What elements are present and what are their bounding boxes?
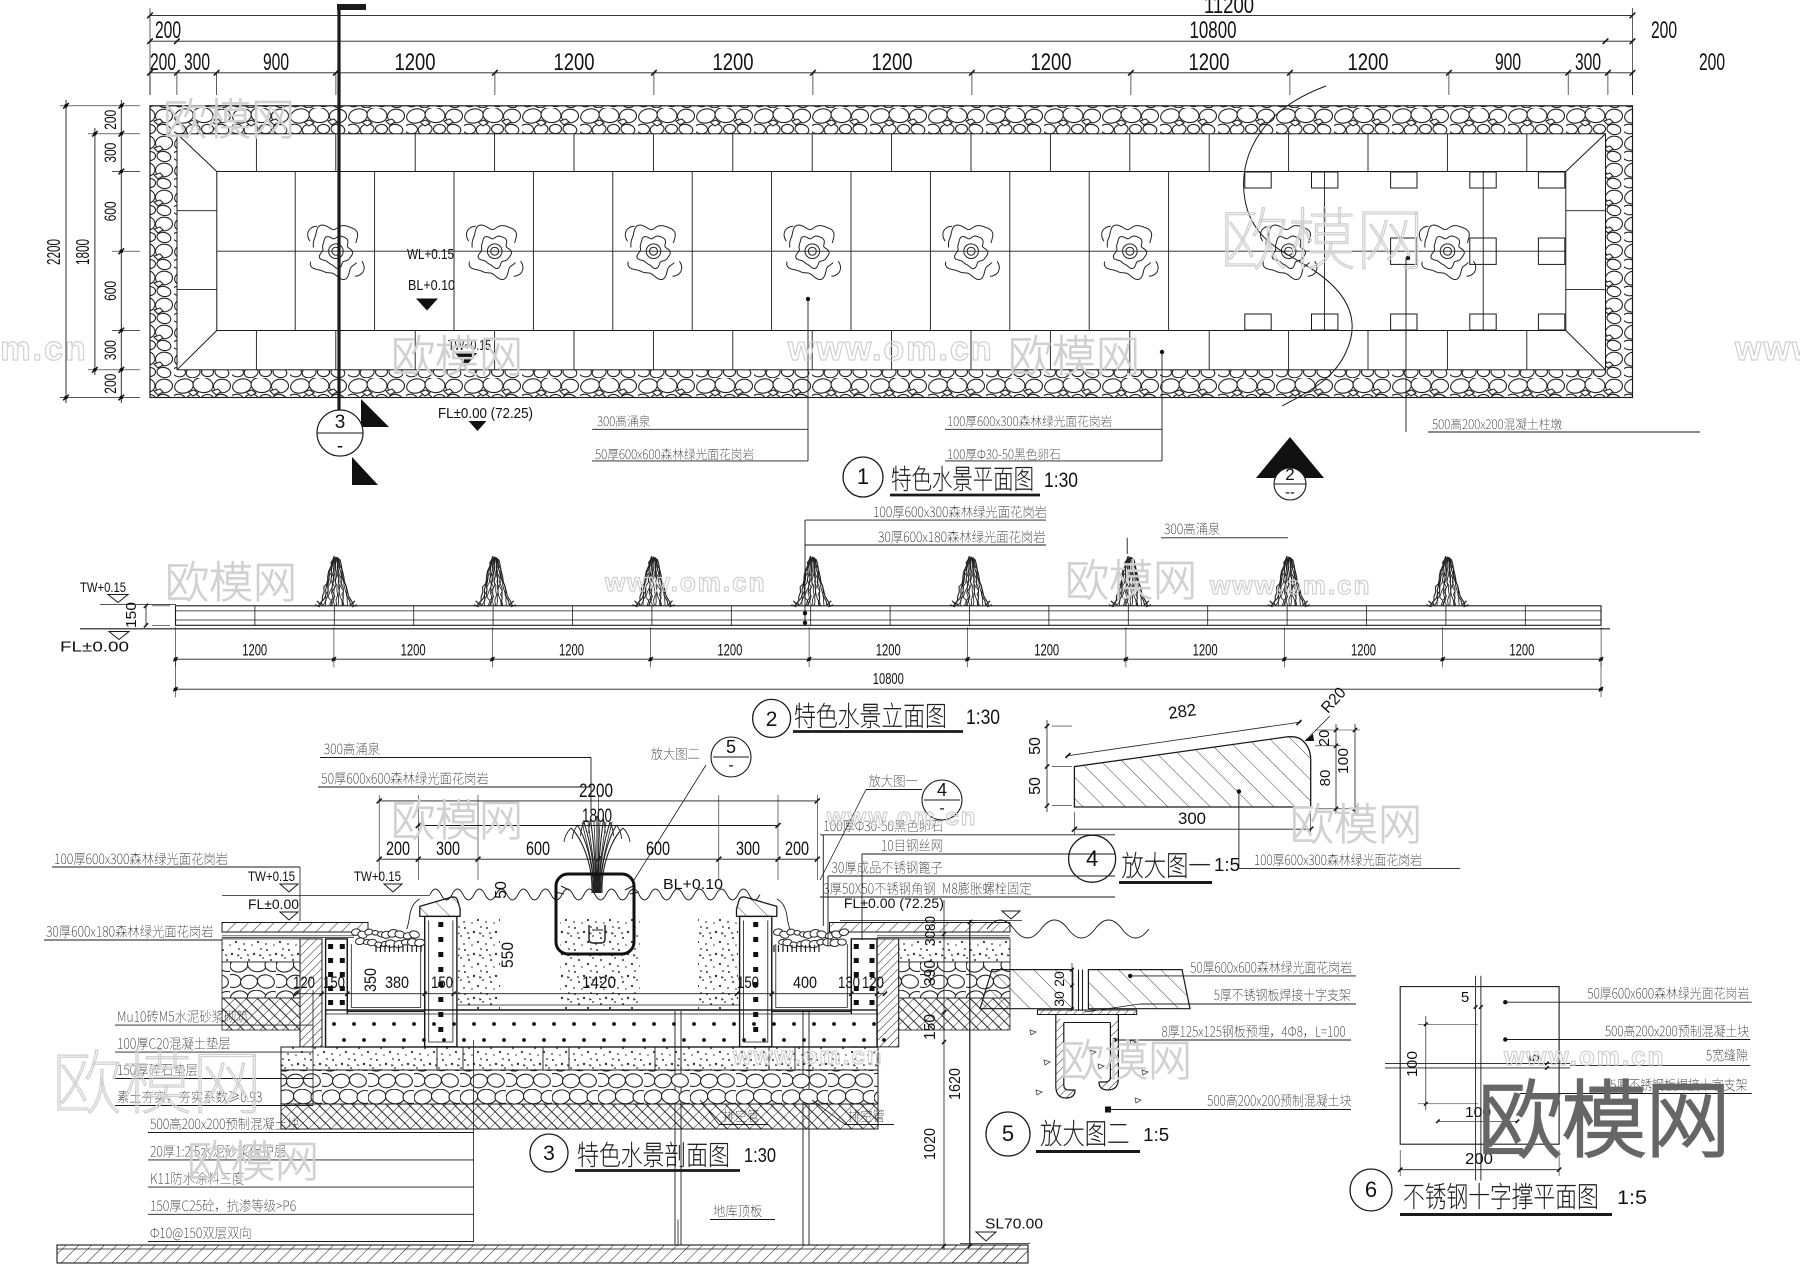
svg-text:5: 5 (1002, 1121, 1014, 1146)
svg-text:150: 150 (431, 973, 453, 992)
svg-text:FL±0.00: FL±0.00 (248, 896, 299, 912)
svg-text:6: 6 (1365, 1177, 1377, 1202)
svg-text:130: 130 (838, 973, 860, 992)
svg-text:150: 150 (737, 973, 759, 992)
svg-text:1:30: 1:30 (966, 706, 1000, 729)
svg-text:10800: 10800 (1190, 17, 1237, 44)
svg-text:400: 400 (793, 973, 817, 992)
svg-text:282: 282 (1167, 700, 1197, 723)
svg-text:www.om.cn: www.om.cn (1503, 1041, 1666, 1071)
svg-text:1200: 1200 (1189, 49, 1230, 76)
svg-text:120: 120 (293, 973, 315, 992)
svg-text:1200: 1200 (876, 641, 901, 660)
svg-text:3: 3 (543, 1142, 555, 1165)
svg-text:www.om.cn: www.om.cn (1734, 330, 1800, 368)
svg-text:200: 200 (1651, 17, 1677, 44)
svg-text:5: 5 (726, 737, 736, 757)
svg-text:50: 50 (493, 881, 510, 899)
svg-text:2: 2 (1285, 465, 1294, 484)
svg-text:20: 20 (1051, 971, 1067, 987)
svg-text:200: 200 (386, 839, 410, 860)
svg-text:1200: 1200 (1031, 49, 1072, 76)
svg-text:4: 4 (1086, 846, 1098, 871)
svg-text:1200: 1200 (1193, 641, 1218, 660)
svg-text:1:30: 1:30 (744, 1145, 776, 1167)
svg-text:1200: 1200 (872, 49, 913, 76)
svg-text:1:5: 1:5 (1617, 1188, 1647, 1209)
svg-text:30: 30 (1051, 991, 1067, 1007)
svg-text:600: 600 (101, 201, 120, 221)
svg-text:1620: 1620 (947, 1068, 964, 1100)
svg-text:200: 200 (101, 374, 120, 394)
svg-text:150: 150 (123, 602, 140, 628)
svg-text:3080: 3080 (922, 916, 939, 946)
svg-text:--: -- (1285, 484, 1295, 501)
svg-text:1420: 1420 (582, 973, 616, 992)
svg-text:50: 50 (1027, 737, 1044, 755)
svg-text:10800: 10800 (873, 671, 904, 688)
svg-text:1200: 1200 (1509, 641, 1534, 660)
svg-text:TW+0.15: TW+0.15 (354, 868, 401, 884)
svg-text:390: 390 (922, 960, 939, 986)
svg-text:300: 300 (184, 49, 210, 76)
svg-text:FL±0.00 (72.25): FL±0.00 (72.25) (844, 895, 944, 911)
svg-text:150: 150 (323, 973, 345, 992)
svg-text:1200: 1200 (395, 49, 436, 76)
svg-text:3: 3 (335, 412, 346, 433)
svg-text:200: 200 (785, 839, 809, 860)
svg-text:600: 600 (526, 839, 550, 860)
svg-text:FL±0.00: FL±0.00 (60, 639, 129, 656)
svg-text:1:5: 1:5 (1143, 1125, 1169, 1145)
svg-text:1:30: 1:30 (1044, 469, 1078, 492)
svg-text:1200: 1200 (242, 641, 267, 660)
svg-text:-: - (337, 436, 343, 457)
svg-text:20: 20 (1316, 730, 1333, 747)
svg-text:TW+0.15: TW+0.15 (80, 579, 126, 595)
svg-text:300: 300 (101, 340, 120, 360)
svg-text:300: 300 (736, 839, 760, 860)
svg-text:1: 1 (857, 464, 869, 489)
svg-text:1200: 1200 (713, 49, 754, 76)
svg-text:1200: 1200 (1351, 641, 1376, 660)
svg-text:1200: 1200 (1348, 49, 1389, 76)
svg-text:www.om.cn: www.om.cn (0, 330, 88, 368)
svg-text:80: 80 (1317, 770, 1334, 787)
svg-text:WL+0.15: WL+0.15 (407, 246, 454, 263)
svg-text:900: 900 (1495, 49, 1521, 76)
svg-text:www.om.cn: www.om.cn (604, 567, 767, 597)
svg-text:600: 600 (101, 281, 120, 301)
svg-text:120: 120 (862, 973, 884, 992)
svg-text:1200: 1200 (401, 641, 426, 660)
svg-text:300: 300 (1178, 809, 1206, 828)
svg-text:www.om.cn: www.om.cn (1209, 570, 1372, 600)
svg-text:-: - (728, 757, 733, 774)
svg-text:FL±0.00 (72.25): FL±0.00 (72.25) (438, 405, 533, 422)
svg-text:www.om.cn: www.om.cn (732, 1043, 883, 1070)
svg-text:BL+0.10: BL+0.10 (408, 277, 455, 294)
svg-text:50: 50 (1027, 777, 1044, 795)
svg-text:1020: 1020 (922, 1128, 939, 1160)
svg-text:1800: 1800 (582, 806, 612, 827)
svg-text:1:5: 1:5 (1214, 855, 1240, 875)
svg-text:100: 100 (1335, 748, 1352, 774)
svg-text:5: 5 (1461, 989, 1469, 1006)
svg-text:300: 300 (1575, 49, 1601, 76)
svg-text:200: 200 (101, 110, 120, 130)
svg-text:150: 150 (922, 1014, 939, 1040)
svg-text:1200: 1200 (559, 641, 584, 660)
svg-text:200: 200 (1699, 49, 1725, 76)
svg-text:BL+0.10: BL+0.10 (663, 876, 723, 893)
svg-text:100: 100 (1404, 1051, 1421, 1077)
svg-text:www.om.cn: www.om.cn (826, 804, 977, 831)
svg-text:2: 2 (766, 708, 778, 731)
svg-text:900: 900 (263, 49, 289, 76)
svg-text:4: 4 (937, 780, 947, 800)
svg-text:300: 300 (436, 839, 460, 860)
svg-text:350: 350 (361, 968, 380, 992)
svg-text:2200: 2200 (579, 781, 613, 802)
svg-text:1200: 1200 (717, 641, 742, 660)
svg-text:2200: 2200 (44, 239, 64, 265)
svg-text:SL70.00: SL70.00 (985, 1216, 1043, 1233)
svg-text:1200: 1200 (554, 49, 595, 76)
svg-text:1200: 1200 (1034, 641, 1059, 660)
svg-text:300: 300 (101, 143, 120, 163)
svg-text:380: 380 (385, 973, 409, 992)
svg-text:200: 200 (150, 49, 176, 76)
svg-text:1800: 1800 (73, 239, 93, 265)
svg-text:TW+0.15: TW+0.15 (248, 868, 295, 884)
svg-text:200: 200 (155, 17, 181, 44)
svg-text:550: 550 (498, 942, 517, 968)
svg-text:www.om.cn: www.om.cn (787, 330, 994, 368)
